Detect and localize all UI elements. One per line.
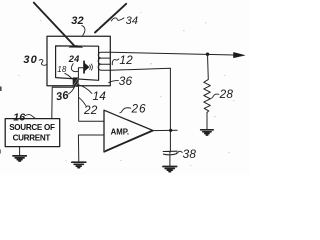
svg-text:SOURCE OF: SOURCE OF bbox=[9, 123, 55, 132]
svg-text:12: 12 bbox=[119, 53, 133, 67]
leader for 36 left bbox=[68, 86, 75, 94]
scan mark left edge bbox=[0, 87, 2, 92]
top wire to arrow bbox=[110, 52, 234, 55]
svg-text:CURRENT: CURRENT bbox=[13, 133, 51, 142]
svg-text:36: 36 bbox=[119, 74, 133, 88]
svg-text:36: 36 bbox=[55, 89, 70, 103]
leader for 26 bbox=[120, 108, 131, 113]
wire amp output bbox=[153, 129, 177, 131]
svg-text:16: 16 bbox=[13, 111, 25, 123]
leader for 38 bbox=[176, 151, 182, 153]
ground (amp lower input) bbox=[72, 162, 86, 167]
speaker sound arcs bbox=[90, 64, 93, 70]
svg-text:38: 38 bbox=[183, 147, 197, 161]
inner box (transducer housing) bbox=[56, 46, 99, 80]
leader for 24 bbox=[71, 64, 78, 72]
leader for 14 bbox=[78, 85, 92, 94]
wire block to amp upper input bbox=[79, 87, 105, 122]
leader for 30 bbox=[39, 60, 47, 66]
resistor 28 bbox=[204, 54, 211, 129]
ground (below resistor 28) bbox=[201, 130, 214, 135]
svg-text:24: 24 bbox=[68, 54, 80, 64]
ground (below source box) bbox=[19, 147, 21, 156]
leader for 32 bbox=[82, 26, 85, 36]
leader for 28 bbox=[211, 94, 219, 98]
arrowhead bbox=[234, 52, 245, 57]
junction node (amp output) bbox=[169, 129, 172, 132]
ground (below capacitor 38) bbox=[163, 167, 177, 172]
leader for 12 bbox=[112, 59, 119, 65]
wire 34 (right prong) bbox=[95, 4, 126, 33]
capacitor 38 bbox=[163, 151, 177, 155]
speaker cone (filled triangle) bbox=[85, 63, 89, 70]
leader for 22 bbox=[79, 98, 86, 106]
leader for 36 right bbox=[109, 81, 119, 83]
leader for 18 bbox=[65, 73, 73, 79]
svg-text:18: 18 bbox=[57, 65, 67, 74]
svg-text:32: 32 bbox=[71, 15, 84, 27]
speaker driver bar bbox=[83, 61, 85, 74]
leader for 16 bbox=[25, 115, 35, 119]
scan noise specks bbox=[18, 12, 234, 166]
coil 12 bbox=[98, 52, 110, 70]
block 36 (hatched element) bbox=[73, 77, 79, 86]
leader for 34 bbox=[111, 18, 124, 21]
svg-text:28: 28 bbox=[219, 87, 234, 101]
op-amp 26 bbox=[104, 110, 153, 152]
outer box 30 bbox=[47, 36, 110, 85]
svg-text:22: 22 bbox=[83, 103, 98, 117]
wire block to source box bbox=[52, 87, 74, 119]
svg-text:30: 30 bbox=[23, 54, 37, 66]
wire amp lower input to ground bbox=[78, 135, 104, 162]
svg-text:34: 34 bbox=[126, 15, 139, 27]
source of current box 16 bbox=[5, 119, 60, 147]
wire coil bottom lead to capacitor bbox=[110, 68, 170, 151]
svg-text:AMP.: AMP. bbox=[111, 128, 130, 137]
junction wedge at inner box top bbox=[69, 45, 83, 47]
wire 32 (left prong) bbox=[34, 3, 74, 46]
svg-text:26: 26 bbox=[131, 101, 147, 115]
wire speaker to block bbox=[78, 68, 83, 78]
junction node (resistor tap) bbox=[206, 53, 209, 56]
svg-text:14: 14 bbox=[93, 89, 107, 103]
